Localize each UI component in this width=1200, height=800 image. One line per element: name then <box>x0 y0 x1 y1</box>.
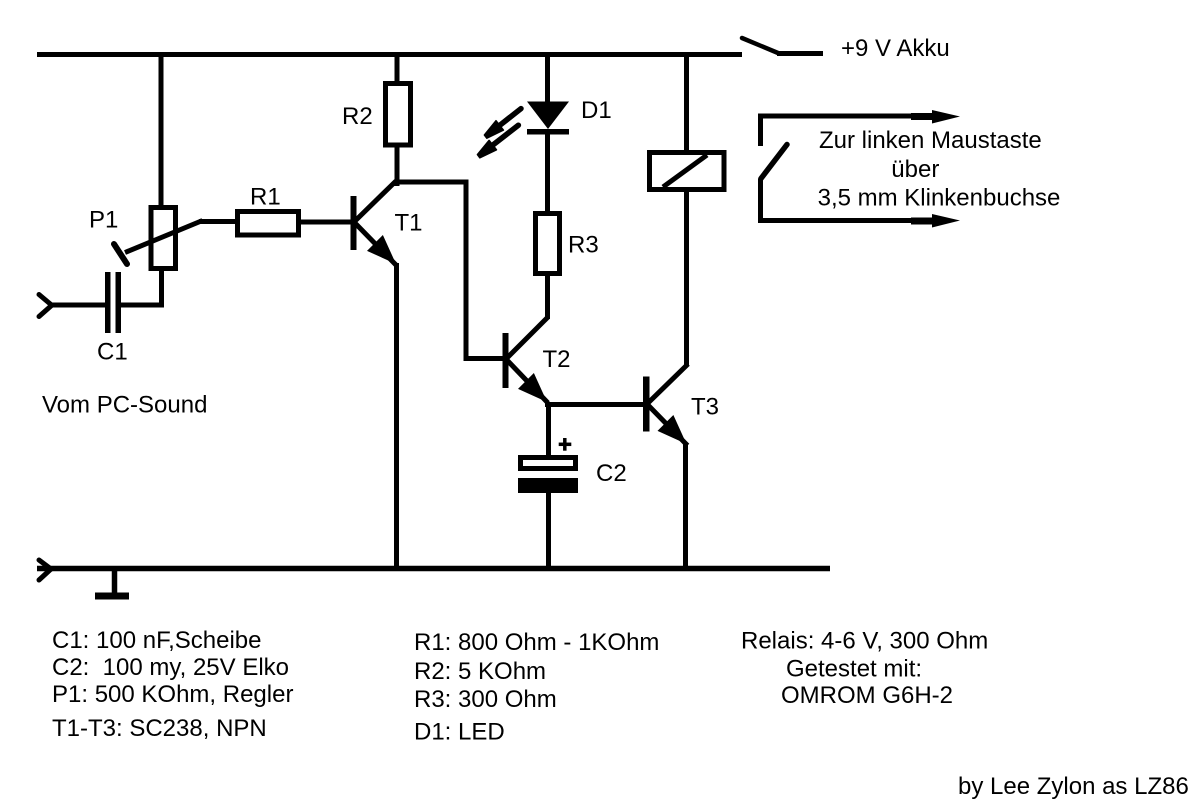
capacitor C2 plus sign <box>559 438 572 451</box>
wire R3 to T2 collector <box>545 273 550 319</box>
capacitor C1 plates <box>105 272 121 333</box>
transistor T2 <box>503 317 549 403</box>
wire D1 to R3 <box>545 132 550 215</box>
input ground terminal arrow <box>39 560 51 580</box>
svg-text:C1: 100 nF,Scheibe: C1: 100 nF,Scheibe <box>52 627 261 654</box>
output jack upper contact <box>758 110 960 146</box>
svg-text:T2: T2 <box>543 346 571 373</box>
wire T1 collector junction horizontal <box>395 180 469 185</box>
LED D1 <box>527 102 569 135</box>
ground symbol <box>95 568 129 596</box>
resistor R1 <box>238 212 299 236</box>
svg-text:über: über <box>891 156 939 183</box>
wire R1 to T1 base <box>299 220 352 225</box>
svg-text:Getestet mit:: Getestet mit: <box>786 656 922 683</box>
svg-text:D1: D1 <box>581 97 612 124</box>
svg-text:T1-T3: SC238, NPN: T1-T3: SC238, NPN <box>52 715 267 742</box>
potentiometer P1 body <box>151 208 176 269</box>
svg-text:R3: 300 Ohm: R3: 300 Ohm <box>414 686 557 713</box>
wire R2 top lead <box>395 52 400 84</box>
resistor R2 <box>386 84 411 146</box>
wire P1 bottom lead <box>159 271 164 305</box>
wire to T2 base <box>464 356 505 361</box>
svg-text:R3: R3 <box>568 232 599 259</box>
svg-text:C2: C2 <box>596 460 627 487</box>
svg-text:T3: T3 <box>691 394 719 421</box>
wire relay to T3 collector <box>684 189 689 366</box>
resistor R3 <box>536 214 560 274</box>
output jack lower contact <box>758 179 960 228</box>
svg-text:C1: C1 <box>97 339 128 366</box>
svg-text:C2: 100 my, 25V Elko: C2: 100 my, 25V Elko <box>52 654 289 681</box>
wire T1 emitter to ground rail <box>394 263 399 568</box>
transistor T1 <box>351 181 398 266</box>
svg-text:3,5 mm Klinkenbuchse: 3,5 mm Klinkenbuchse <box>818 185 1061 212</box>
power switch S1 stub <box>777 51 823 56</box>
relay K1 coil box <box>650 153 725 190</box>
wire T3 emitter to ground rail <box>683 443 688 568</box>
wire C1 to P1 junction <box>120 303 164 308</box>
svg-text:P1: 500 KOhm, Regler: P1: 500 KOhm, Regler <box>52 681 293 708</box>
svg-text:Vom PC-Sound: Vom PC-Sound <box>42 392 207 419</box>
wire relay top lead <box>684 52 689 154</box>
svg-text:T1: T1 <box>395 210 423 237</box>
LED D1 light arrow 1 <box>484 109 521 139</box>
svg-text:R2: 5 KOhm: R2: 5 KOhm <box>414 658 546 685</box>
output jack switch blade <box>761 145 787 179</box>
wire R2 bottom lead <box>395 145 400 186</box>
wire ground rail <box>37 566 830 572</box>
transistor T3 <box>643 364 688 446</box>
svg-text:by Lee Zylon as LZ86: by Lee Zylon as LZ86 <box>958 773 1189 800</box>
wire wiper to R1 <box>199 219 237 224</box>
wire T2 emitter to T3 base <box>545 402 645 407</box>
wire P1 top lead <box>159 52 164 207</box>
capacitor C2 top plate <box>521 458 576 469</box>
svg-text:P1: P1 <box>89 207 118 234</box>
input terminal arrow <box>39 295 52 317</box>
LED D1 light arrow 2 <box>477 125 518 158</box>
svg-text:R2: R2 <box>342 103 373 130</box>
potentiometer P1 wiper arrow <box>114 221 203 265</box>
svg-text:Zur linken Maustaste: Zur linken Maustaste <box>819 127 1042 154</box>
wire C2 to ground rail <box>546 493 551 568</box>
wire C2 top lead <box>546 403 551 458</box>
wire D1 top lead <box>545 52 550 105</box>
power switch S1 blade <box>742 38 778 53</box>
svg-text:+9 V Akku: +9 V Akku <box>841 35 950 62</box>
capacitor C2 bottom plate <box>518 478 578 493</box>
svg-text:R1: R1 <box>250 184 281 211</box>
svg-text:R1: 800 Ohm - 1KOhm: R1: 800 Ohm - 1KOhm <box>414 629 659 656</box>
svg-text:OMROM G6H-2: OMROM G6H-2 <box>781 682 953 709</box>
wire collector to T2 base vertical <box>464 181 469 361</box>
wire top supply rail <box>37 52 742 57</box>
svg-text:Relais: 4-6 V, 300 Ohm: Relais: 4-6 V, 300 Ohm <box>741 628 988 655</box>
wire input to C1 <box>49 303 105 308</box>
svg-text:D1: LED: D1: LED <box>414 719 505 746</box>
